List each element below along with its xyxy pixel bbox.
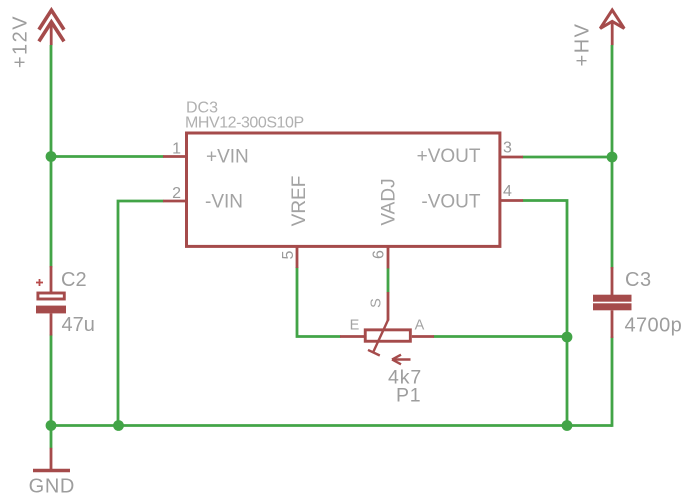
svg-text:-VIN: -VIN xyxy=(205,191,243,212)
IC DC3 box xyxy=(187,133,500,246)
svg-text:MHV12-300S10P: MHV12-300S10P xyxy=(185,115,304,132)
svg-text:+HV: +HV xyxy=(572,23,594,67)
wire bottom rail xyxy=(51,424,612,427)
ground symbol GND xyxy=(33,448,70,471)
pin stubs DC3 xyxy=(163,157,523,269)
supply symbol +12V xyxy=(39,10,64,45)
svg-text:A: A xyxy=(415,317,425,333)
C2 plus sign xyxy=(36,279,43,286)
junction GND tap xyxy=(46,420,57,431)
C3 plate 2 (filled) xyxy=(593,303,632,310)
svg-text:-VOUT: -VOUT xyxy=(421,192,481,213)
svg-text:4: 4 xyxy=(503,183,512,200)
wire pin4 right-down xyxy=(523,201,568,426)
svg-text:C2: C2 xyxy=(61,269,87,291)
svg-text:GND: GND xyxy=(29,475,75,497)
C2 top plate (outline) xyxy=(38,293,64,299)
pin 2 stub xyxy=(163,200,186,203)
junction at pin3 / +HV xyxy=(607,152,618,163)
GND lead xyxy=(50,448,53,469)
P1 E stub xyxy=(340,335,364,338)
pin 3 stub xyxy=(500,156,523,159)
svg-text:+VOUT: +VOUT xyxy=(417,146,481,167)
wire pin2 to left-down xyxy=(118,201,164,426)
C3 plate 1 (filled) xyxy=(593,295,632,302)
svg-text:4700p: 4700p xyxy=(625,315,683,337)
junction pin2 / rail xyxy=(113,420,124,431)
svg-text:E: E xyxy=(350,317,360,333)
svg-text:2: 2 xyxy=(172,185,181,202)
wire +HV vertical below C3 to rail xyxy=(611,337,614,427)
P1 wiper end bar xyxy=(368,350,380,356)
svg-text:6: 6 xyxy=(371,250,388,259)
GND bar xyxy=(33,469,70,472)
svg-text:P1: P1 xyxy=(396,385,421,407)
C2 bottom plate (filled) xyxy=(36,306,66,314)
pin 5 stub xyxy=(296,247,299,269)
wire +12V vertical below C2 to GND tap xyxy=(50,335,53,449)
P1 body rect xyxy=(365,330,410,341)
junction at pin1 / +12V xyxy=(46,151,57,162)
svg-text:3: 3 xyxy=(503,140,512,157)
wire net +12V vertical top xyxy=(51,45,612,449)
svg-text:S: S xyxy=(369,298,385,308)
svg-text:VADJ: VADJ xyxy=(379,178,400,225)
capacitor C3 xyxy=(593,267,632,338)
C2 bottom lead xyxy=(50,313,53,335)
svg-text:C3: C3 xyxy=(625,269,652,291)
potentiometer P1 xyxy=(340,292,434,364)
svg-text:VREF: VREF xyxy=(289,176,310,227)
pin 1 stub xyxy=(163,155,186,158)
wire pin5 down-right to pot E xyxy=(297,267,341,337)
wire pin1 horizontal xyxy=(51,155,164,158)
svg-text:5: 5 xyxy=(280,250,297,259)
svg-text:47u: 47u xyxy=(62,314,95,336)
junction pot A / pin4 vertical xyxy=(562,332,573,343)
C3 bottom lead xyxy=(611,310,614,338)
C2 top lead xyxy=(50,266,53,292)
wire pin3 horizontal xyxy=(523,156,613,159)
junction pin4 vertical / rail xyxy=(562,420,573,431)
C3 top lead xyxy=(611,267,614,296)
wire pin6 segment xyxy=(387,268,390,293)
svg-text:+VIN: +VIN xyxy=(206,147,249,168)
pin 6 stub xyxy=(387,247,390,269)
P1 S lead xyxy=(387,292,390,321)
P1 A stub xyxy=(412,335,434,338)
supply symbol +HV xyxy=(600,10,624,45)
pin 4 stub xyxy=(500,199,523,202)
svg-text:+12V: +12V xyxy=(10,15,32,68)
svg-text:1: 1 xyxy=(172,141,181,158)
wire pot A to right vertical xyxy=(434,335,568,338)
wire +HV vertical top xyxy=(611,45,614,269)
P1 wiper diagonal xyxy=(374,320,389,352)
P1 adjust arrow xyxy=(392,358,411,360)
capacitor C2 (polarized) xyxy=(36,266,66,336)
